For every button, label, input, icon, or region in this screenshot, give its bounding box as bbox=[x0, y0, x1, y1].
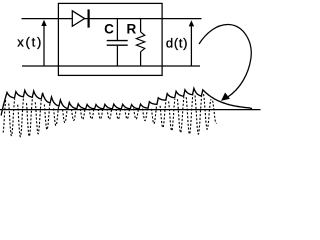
svg-text:R: R bbox=[127, 22, 137, 37]
svg-text:x(t): x(t) bbox=[17, 34, 43, 49]
svg-text:d(t): d(t) bbox=[166, 35, 188, 50]
svg-text:C: C bbox=[104, 22, 114, 37]
